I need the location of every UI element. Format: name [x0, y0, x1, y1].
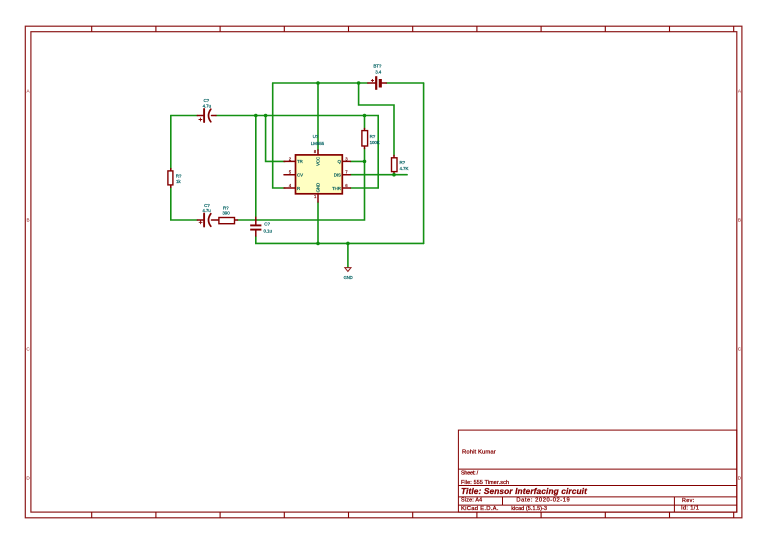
svg-text:B: B: [27, 217, 30, 222]
svg-text:TR: TR: [297, 159, 303, 164]
svg-text:VCC: VCC: [316, 157, 321, 166]
svg-text:Sheet: /: Sheet: /: [461, 471, 479, 477]
svg-text:B: B: [738, 217, 741, 222]
svg-text:R: R: [297, 186, 300, 191]
svg-text:R?: R?: [400, 160, 406, 165]
svg-text:Rev:: Rev:: [682, 498, 694, 504]
svg-text:THR: THR: [332, 186, 341, 191]
svg-text:100K: 100K: [370, 140, 380, 145]
svg-text:GND: GND: [316, 183, 321, 192]
svg-text:3.4: 3.4: [375, 70, 382, 75]
svg-text:U?: U?: [313, 134, 319, 139]
svg-text:BT?: BT?: [373, 63, 382, 68]
svg-text:C?: C?: [264, 221, 270, 226]
svg-text:GND: GND: [344, 275, 353, 280]
svg-text:DIS: DIS: [334, 173, 341, 178]
svg-text:Size: A4: Size: A4: [461, 498, 482, 504]
svg-text:R?: R?: [370, 134, 376, 139]
svg-text:Date: 2020-02-19: Date: 2020-02-19: [516, 498, 570, 504]
svg-text:4.7K: 4.7K: [400, 166, 409, 171]
svg-text:4.7u: 4.7u: [203, 104, 212, 109]
svg-text:R?: R?: [176, 173, 182, 178]
svg-text:CV: CV: [297, 173, 303, 178]
svg-text:0.1u: 0.1u: [264, 228, 273, 233]
svg-text:390: 390: [222, 211, 230, 216]
svg-text:Id: 1/1: Id: 1/1: [681, 506, 699, 512]
svg-text:KiCad E.D.A.: KiCad E.D.A.: [461, 506, 499, 512]
svg-text:kicad (5.1.5)-3: kicad (5.1.5)-3: [511, 506, 547, 512]
svg-text:Rohit Kumar: Rohit Kumar: [462, 450, 496, 456]
svg-text:C?: C?: [204, 98, 210, 103]
svg-text:4.7u: 4.7u: [202, 208, 211, 213]
svg-text:Title: Sensor Interfacing circ: Title: Sensor Interfacing circuit: [461, 486, 588, 496]
svg-text:LM555: LM555: [311, 141, 325, 146]
